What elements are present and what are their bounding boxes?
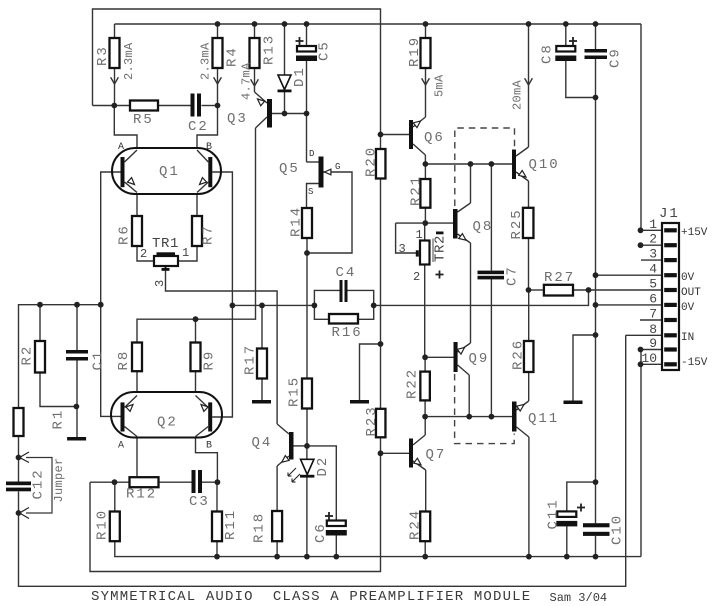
svg-text:4.7mA: 4.7mA (240, 62, 254, 100)
svg-text:Q6: Q6 (424, 130, 445, 146)
svg-text:Q9: Q9 (469, 351, 490, 367)
svg-text:2.3mA: 2.3mA (122, 42, 136, 80)
svg-text:Q11: Q11 (528, 411, 559, 427)
svg-text:20mA: 20mA (511, 79, 525, 110)
svg-text:R14: R14 (289, 206, 305, 237)
svg-text:R21: R21 (409, 175, 425, 206)
svg-text:1: 1 (182, 246, 189, 260)
svg-text:Q7: Q7 (426, 447, 447, 463)
svg-text:7: 7 (649, 307, 657, 322)
svg-text:Sam 3/04: Sam 3/04 (550, 591, 608, 605)
svg-text:R23: R23 (364, 405, 380, 436)
svg-text:3: 3 (153, 280, 167, 287)
svg-text:R27: R27 (544, 270, 575, 286)
svg-text:C2: C2 (188, 119, 209, 135)
svg-text:R10: R10 (95, 509, 111, 540)
svg-text:Q3: Q3 (227, 111, 248, 127)
svg-text:0V: 0V (681, 302, 695, 314)
svg-text:Jumper: Jumper (52, 457, 66, 502)
svg-text:1: 1 (649, 217, 657, 232)
svg-text:R18: R18 (252, 512, 268, 543)
svg-text:R25: R25 (509, 208, 525, 239)
svg-text:Q1: Q1 (159, 164, 180, 180)
svg-text:R8: R8 (116, 350, 132, 371)
svg-text:R11: R11 (223, 509, 239, 540)
svg-text:R16: R16 (332, 325, 363, 341)
svg-text:R2: R2 (20, 345, 36, 366)
svg-text:R4: R4 (225, 46, 241, 67)
svg-text:C5: C5 (317, 40, 333, 61)
svg-text:Q8: Q8 (473, 219, 494, 235)
svg-text:D: D (309, 149, 314, 159)
svg-text:R19: R19 (407, 36, 423, 67)
svg-text:5: 5 (649, 277, 657, 292)
svg-text:IN: IN (681, 332, 694, 344)
svg-text:4: 4 (649, 262, 657, 277)
svg-text:+15V: +15V (681, 227, 708, 239)
svg-text:3: 3 (399, 242, 406, 256)
svg-text:C8: C8 (540, 43, 556, 64)
svg-text:S: S (308, 187, 313, 197)
svg-text:J1: J1 (659, 206, 680, 222)
svg-text:G: G (335, 162, 340, 172)
svg-text:6: 6 (649, 291, 657, 306)
svg-text:Q2: Q2 (157, 415, 178, 431)
svg-text:1: 1 (416, 228, 423, 242)
svg-text:R1: R1 (51, 409, 67, 430)
svg-text:R15: R15 (287, 376, 303, 407)
svg-text:R13: R13 (262, 34, 278, 65)
svg-text:B: B (206, 142, 212, 153)
svg-text:C11: C11 (546, 498, 562, 529)
svg-text:C12: C12 (31, 468, 47, 499)
svg-text:9: 9 (649, 336, 657, 351)
svg-text:0V: 0V (681, 272, 695, 284)
svg-text:B: B (206, 441, 212, 452)
svg-text:5mA: 5mA (433, 74, 447, 97)
svg-text:10: 10 (641, 351, 657, 366)
svg-text:2: 2 (649, 232, 657, 247)
svg-text:Q5: Q5 (279, 161, 300, 177)
svg-text:R7: R7 (201, 224, 217, 245)
svg-text:R5: R5 (133, 112, 154, 128)
svg-text:2: 2 (140, 247, 147, 261)
svg-text:-15V: -15V (681, 357, 708, 369)
svg-text:C6: C6 (313, 522, 329, 543)
svg-text:R20: R20 (364, 146, 380, 177)
svg-text:2.3mA: 2.3mA (199, 42, 213, 80)
svg-text:R12: R12 (126, 487, 157, 503)
svg-text:R3: R3 (95, 45, 111, 66)
svg-text:D1: D1 (292, 66, 308, 87)
svg-text:OUT: OUT (681, 287, 701, 299)
svg-text:R6: R6 (117, 224, 133, 245)
svg-text:C10: C10 (610, 514, 626, 545)
svg-text:3: 3 (649, 247, 657, 262)
svg-text:TR1: TR1 (152, 236, 179, 252)
svg-text:A: A (118, 441, 124, 452)
svg-text:C9: C9 (608, 47, 624, 68)
svg-text:R26: R26 (511, 339, 527, 370)
svg-text:C1: C1 (91, 350, 107, 371)
svg-text:8: 8 (649, 322, 657, 337)
svg-text:C4: C4 (336, 265, 357, 281)
svg-text:C3: C3 (189, 494, 210, 510)
svg-text:R17: R17 (243, 344, 259, 375)
svg-text:R24: R24 (408, 509, 424, 540)
svg-text:TR2: TR2 (433, 235, 449, 262)
svg-text:A: A (118, 142, 124, 153)
svg-text:Q4: Q4 (252, 435, 273, 451)
svg-text:Q10: Q10 (529, 157, 560, 173)
svg-text:SYMMETRICAL AUDIO CLASS A PRE: SYMMETRICAL AUDIO CLASS A PREAMPLIFIER M… (91, 589, 531, 605)
svg-text:C7: C7 (505, 265, 521, 286)
svg-text:R9: R9 (202, 350, 218, 371)
svg-text:R22: R22 (405, 368, 421, 399)
svg-text:2: 2 (413, 270, 420, 284)
svg-text:D2: D2 (315, 456, 331, 477)
